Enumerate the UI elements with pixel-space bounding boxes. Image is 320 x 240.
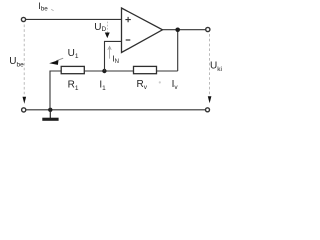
wire I_N current arrow (light): [109, 48, 111, 59]
op-amp U1 triangle: [122, 8, 163, 53]
resistor R1: [61, 66, 84, 73]
op-amp plus input marking: [125, 17, 130, 22]
node input terminal top-left: [21, 17, 25, 21]
wire faint tick after I_be: [51, 9, 53, 11]
wire output leg vertical: [177, 30, 179, 71]
node ground junction dot: [48, 108, 52, 112]
wire faint speck: [159, 81, 161, 83]
wire U_ki dashed voltage arrow line: [208, 34, 210, 96]
node U_ki arrowhead: [208, 96, 212, 103]
wire left leg from R1 down to ground rail: [50, 71, 61, 110]
node U_D arrowhead: [105, 33, 110, 39]
wire top input wire to op-amp + input: [26, 18, 122, 20]
op-amp minus input marking: [126, 39, 131, 41]
wire from Rv to output leg: [157, 70, 178, 72]
node input terminal bottom-left: [22, 108, 26, 112]
node I_1 junction dot: [102, 69, 106, 73]
node output terminal top-right: [206, 27, 210, 31]
wire bottom rail: [26, 109, 206, 111]
node output terminal bottom-right: [206, 108, 210, 112]
wire U_D arrow shaft dotted: [106, 22, 108, 33]
resistor Rv: [134, 66, 157, 73]
node U_1 arrowhead: [49, 60, 58, 65]
wire feedback from inverting input down to node I1: [105, 41, 122, 71]
wire U_1 arrow shaft: [56, 58, 63, 61]
node U_be arrowhead: [23, 97, 27, 104]
wire between R1 and node I1: [84, 70, 133, 72]
ground: [49, 110, 51, 118]
wire op-amp output: [163, 29, 206, 31]
node output junction dot: [175, 28, 180, 33]
wire U_be dashed voltage arrow line: [23, 25, 25, 97]
